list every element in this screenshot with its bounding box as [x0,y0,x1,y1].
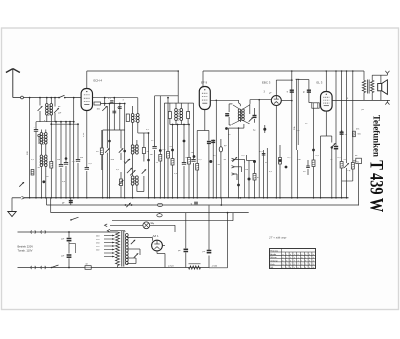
wire [196,131,198,164]
title T439W [366,160,387,212]
transformer primary [116,232,120,266]
antenna [6,69,21,98]
trimmer [249,117,253,121]
wire [132,154,134,176]
paper cap [219,139,222,198]
label [224,145,227,147]
label [316,155,320,157]
core [48,105,50,116]
capacitor C6 [142,148,149,154]
core [134,177,136,185]
switch contact [232,166,242,172]
label [46,176,49,178]
capacitor [253,108,257,123]
label [89,163,93,165]
svg-text:2M: 2M [57,159,60,161]
wire [291,70,293,198]
tap [96,245,115,248]
wire [137,176,144,192]
contact [107,229,125,232]
coil L13 [238,109,241,121]
label [163,149,167,151]
tube U2 EF9 [199,87,210,110]
capacitor [182,163,186,165]
svg-text:Heizung: Heizung [270,251,278,253]
plug [41,230,45,233]
wire [86,111,88,168]
wire [73,97,75,198]
capacitor [340,132,348,136]
wire [148,132,150,198]
svg-text:EBC 3: EBC 3 [262,81,271,85]
label [265,162,268,164]
capacitor [85,168,89,170]
wire [164,102,173,104]
wire [193,163,195,198]
wire [109,103,111,198]
wire [40,144,42,155]
wire [185,213,187,249]
diode load [312,103,319,108]
wire [143,154,145,162]
wire [65,97,81,99]
mains wire top [18,231,118,233]
terminal [38,134,40,144]
trimmer [142,169,146,173]
label [111,159,115,161]
capacitor [187,112,190,119]
wire [35,122,37,130]
wire [167,97,169,152]
wire [342,180,353,182]
wire [154,150,156,198]
wire [138,132,149,134]
label [57,159,60,161]
wire [197,130,209,132]
wire [275,106,277,198]
wire [50,123,52,161]
diag [233,105,250,109]
blob [42,180,45,183]
wire [117,266,119,268]
label [117,107,120,109]
fuse [85,264,91,270]
wire [341,70,343,161]
label [199,159,203,161]
svg-text:1M: 1M [245,169,248,171]
label [344,159,347,161]
label [34,127,36,129]
switch wiper [105,148,109,152]
terminal Y bottom [385,100,389,104]
plug [41,266,45,269]
choke [189,264,201,269]
trimmer C2 [54,108,59,113]
lamp [143,222,150,229]
label [150,154,153,156]
wire [209,267,228,269]
label [269,93,272,95]
capacitor C4 [126,114,129,122]
svg-text:Anode: Anode [270,253,277,256]
diag [232,121,250,125]
switch wiper [127,168,132,173]
plug [31,266,35,269]
blob [248,161,251,198]
core [43,134,45,145]
wire [188,164,190,198]
terminal Y top [385,71,389,75]
switch [70,217,78,221]
switch contact [232,158,245,163]
diode wire [281,100,292,102]
svg-text:Kath.: Kath. [270,263,275,266]
label [212,266,218,268]
wire [101,103,125,105]
wire [46,198,48,205]
wire [86,71,88,89]
label [245,169,248,171]
wire [296,150,298,198]
output transformer primary [362,71,365,93]
label [58,106,61,108]
wire [104,97,106,106]
switch [51,265,59,268]
bus connector [22,196,25,199]
label [214,155,218,157]
label [80,157,84,159]
text block [18,245,34,253]
tap [96,242,115,245]
electrolytic [334,147,338,149]
wire [55,121,57,198]
plug [31,230,35,233]
wire [247,155,255,161]
blob [237,184,240,187]
svg-text:17Ωu: 17Ωu [212,266,218,268]
wire [23,97,59,99]
electrolytic C22 [203,206,212,268]
switch wiper [130,170,135,175]
resistor [31,170,34,176]
label [44,120,46,122]
wire [29,97,31,198]
svg-text:17Ωu: 17Ωu [168,265,174,267]
wire [124,103,126,198]
resistor R2 [50,162,53,169]
wire [86,171,88,198]
capacitor [62,198,73,205]
resistor R10 [279,145,282,198]
label [338,157,342,159]
resistor R13 [340,162,343,198]
blob [312,149,315,152]
wire [363,93,365,101]
electrolytic C20 [62,232,72,254]
svg-text:1M: 1M [191,152,194,154]
wire [335,150,337,198]
label [124,160,126,164]
wire [229,104,232,112]
electrolytic C21 [62,255,72,268]
svg-text:EL 3: EL 3 [317,81,323,85]
wire [183,166,185,198]
speaker support [380,75,382,100]
label [347,98,349,100]
wire [183,124,185,163]
label [146,129,150,131]
wire [50,115,52,124]
wire [45,167,47,198]
resistor R7 [171,159,174,166]
wire [45,144,47,155]
wire [169,103,171,124]
wire [167,158,169,198]
wire [202,71,204,87]
wire [188,124,190,158]
electrolytic C23 [178,249,188,267]
label U4 [317,81,323,85]
potentiometer P1 [119,172,124,198]
wire top bus left [87,70,178,72]
wire [157,251,165,268]
resistor R14 [351,70,354,181]
resistor R8 [188,158,191,165]
label [348,170,351,172]
tube data table [270,249,316,270]
wire [193,103,195,159]
coil L12 [180,103,183,120]
junction [68,267,70,269]
wire [229,124,244,128]
wire [249,100,251,114]
cap top bar [296,79,300,150]
tap [96,249,115,252]
ground wire [12,197,21,199]
svg-text:I.A.: I.A. [270,266,274,269]
wire [60,168,62,198]
wire [159,161,161,198]
svg-text:G.Vorsp: G.Vorsp [270,260,278,263]
wire [208,131,210,141]
wire [177,124,179,198]
table note [268,236,287,240]
core [122,231,124,267]
blob [108,140,111,143]
label [269,171,273,173]
cathode trimmer [331,143,336,198]
wire [353,160,356,162]
label [170,146,173,148]
wire [52,123,78,125]
svg-text:EF 9: EF 9 [201,81,207,85]
mains wire bottom [18,267,118,269]
title Telefunken [370,115,380,158]
svg-text:Tonab. 110V: Tonab. 110V [18,249,33,253]
label [31,159,35,161]
wire [298,79,309,81]
rectifier U5 AZ1 [152,240,163,251]
wire [263,150,265,198]
wire [155,95,179,97]
coil L2 [50,97,53,115]
junction [220,198,222,206]
coil L4 [45,130,48,145]
wire [229,117,231,125]
wire [326,70,328,91]
core [43,156,45,165]
svg-text:AZ 1: AZ 1 [153,234,159,238]
capacitor [286,90,294,94]
svg-text:2M: 2M [298,159,301,161]
label [253,130,256,132]
svg-text:Telefunken: Telefunken [370,115,380,158]
label [218,164,221,166]
coil L7 [131,145,134,154]
output transformer secondary [371,80,374,92]
wire [35,131,37,198]
label [59,113,62,115]
junction [68,231,70,233]
core [134,115,136,123]
wire [102,130,104,198]
vertical label [27,151,29,155]
capacitor [303,90,311,94]
tap [104,252,115,254]
switch wiper [134,253,138,257]
blob [285,166,288,169]
label [356,129,360,131]
vertical label [294,126,296,130]
component box [356,158,362,163]
tap [96,235,115,238]
blob [279,159,282,162]
blob [209,160,212,163]
switch contact [232,173,238,180]
capacitor [34,130,38,132]
wire [204,110,206,131]
label U1 [94,79,103,83]
main ground bus [25,197,349,199]
trimmer C3 [102,106,107,111]
grid wire [250,99,271,101]
label [108,98,112,100]
resistor R9 [196,164,199,198]
cathode loop [321,136,332,198]
wire row C [112,213,233,221]
wire [313,108,315,160]
blob [65,157,68,160]
wire [50,168,52,198]
wire [170,124,188,126]
label [151,223,155,225]
wire [177,70,179,103]
plate to HT [276,80,292,95]
capacitor [76,123,80,198]
blob [147,159,150,162]
wire [93,97,138,99]
label [116,169,120,171]
wire [172,124,174,159]
label [305,123,308,125]
label [264,91,266,94]
label [288,157,292,159]
wire [325,111,327,136]
blob [253,160,256,163]
switch wiper [119,148,123,152]
wire [106,153,108,198]
transformer secondary [125,234,128,265]
label [72,161,76,163]
wire [372,75,387,80]
tap [96,238,115,241]
speaker [378,80,388,95]
wire [65,166,67,198]
tube U1 ECH4 [81,89,92,111]
coil L5 [131,106,134,123]
resistor R6 [167,152,170,159]
capacitor [118,107,122,109]
coil L6 [136,98,139,123]
wire [258,99,260,198]
label [156,162,159,164]
label [191,152,194,154]
capacitor [152,147,156,149]
wire [371,93,373,101]
wire [119,103,121,130]
resistor [353,131,362,137]
resistor [312,160,315,198]
label [123,100,125,102]
tube U3 EBC3 [271,96,281,106]
wire [212,140,214,198]
wire row A [47,204,359,206]
wire [176,121,181,125]
label [228,134,231,136]
tap wire [127,238,153,241]
connector [157,213,162,217]
wire [39,97,41,106]
wire [60,121,62,165]
resistor R4 [100,130,103,170]
wire [46,115,48,122]
bus junctions [29,197,348,199]
label [62,181,66,183]
wire [103,129,125,131]
blob [171,149,174,152]
tap wire [127,257,136,259]
wire [54,113,56,122]
blob [183,140,186,143]
wire [120,130,122,160]
capacitor [191,160,195,162]
switch wiper [131,240,135,244]
coil L3a [40,155,43,167]
svg-text:Betrieb 220V: Betrieb 220V [18,245,34,249]
capacitor [64,163,68,165]
label U5 [153,234,159,238]
svg-text:Schirm: Schirm [270,256,277,259]
blob [193,155,196,158]
contact [105,224,108,227]
coil L14 [242,109,245,121]
coil L8 [136,140,139,154]
wire [40,167,42,198]
wire [69,121,71,198]
wire [173,102,187,104]
blob [263,125,266,133]
blob [225,127,228,130]
